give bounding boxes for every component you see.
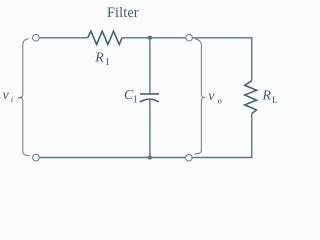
svg-text:v: v: [208, 89, 215, 104]
svg-text:1: 1: [105, 57, 110, 68]
svg-text:L: L: [272, 95, 278, 105]
svg-text:R: R: [94, 49, 104, 64]
svg-text:R: R: [262, 87, 272, 102]
svg-text:1: 1: [133, 94, 138, 105]
svg-text:v: v: [3, 88, 10, 103]
svg-text:Filter: Filter: [107, 5, 139, 21]
svg-text:o: o: [218, 95, 222, 105]
svg-text:i: i: [11, 95, 13, 104]
